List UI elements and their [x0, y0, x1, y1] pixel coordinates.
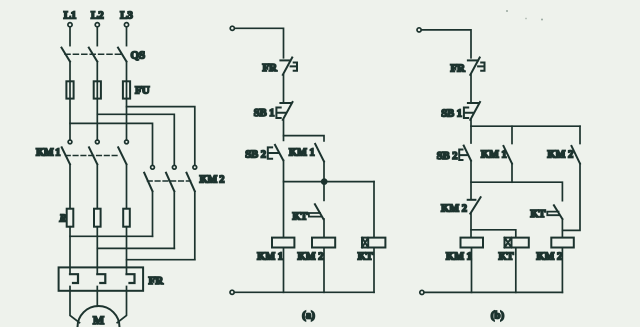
fuse FU pole 1: [66, 81, 73, 98]
wire KM1 pole 1 to R: [69, 164, 71, 208]
svg-text:L1: L1: [64, 10, 77, 22]
contactor KM1 pole 2 terminal: [95, 140, 99, 144]
contactor KM2 pole 3 terminal: [193, 165, 197, 169]
wire KM2 pole 1 down: [152, 191, 154, 236]
thermal contact FR (b) tick: [468, 59, 478, 61]
contactor KM1 pole 2 blade: [89, 147, 97, 164]
contactor KM1 pole 3 blade: [118, 147, 126, 164]
svg-text:(b): (b): [491, 310, 505, 322]
coil KT (b) with delay section: [505, 238, 529, 248]
wire KM1 pole 3 to R: [126, 164, 128, 208]
wire QS to FU pole 1: [69, 62, 71, 99]
svg-text:KM 1: KM 1: [446, 252, 472, 263]
motor M: [78, 306, 120, 327]
wire FR to SB1 (b): [470, 75, 472, 102]
thermal contact FR (a) tick: [280, 59, 290, 61]
wire tap phase2 to KM2 pole2: [97, 114, 174, 165]
thermal relay FR element 1: [70, 274, 78, 283]
svg-text:(a): (a): [302, 310, 315, 322]
svg-text:SB 2: SB 2: [437, 151, 458, 162]
wire SB1 to SB2 (a): [283, 120, 285, 141]
pushbutton SB1 (a) actuator: [276, 108, 285, 119]
svg-text:QS: QS: [131, 50, 146, 62]
speck 3: [541, 19, 543, 21]
contactor KM2 pole 1 blade: [144, 173, 152, 192]
svg-text:KM 1: KM 1: [36, 148, 60, 159]
wire a top rail: [234, 28, 283, 58]
thermal relay FR element 3: [127, 274, 135, 283]
timed contact KT (b) delay mark: [547, 212, 559, 216]
wire SB1 to node A (b): [470, 120, 472, 143]
contactor KM2 pole 3 blade: [187, 173, 195, 192]
pushbutton SB2 (b) blade: [464, 146, 471, 161]
pushbutton SB2 (a) blade: [275, 145, 283, 161]
svg-text:KT: KT: [530, 209, 545, 220]
wire QS to FU pole 3: [126, 62, 128, 99]
svg-text:SB 2: SB 2: [245, 149, 266, 160]
thermal contact FR (a) blade: [283, 58, 292, 75]
svg-text:KM 2: KM 2: [298, 251, 324, 262]
fuse FU pole 2: [94, 81, 101, 98]
wire KM2 bypass phase3: [127, 259, 195, 261]
terminal L2: [95, 23, 99, 27]
pushbutton SB1 (b) blade: [470, 102, 480, 120]
coil KM1 (b): [461, 238, 484, 248]
junction dot (a): [322, 179, 327, 184]
contactor KM1 pole 1 terminal: [68, 140, 72, 144]
contactor KM1 pole 1 blade: [62, 147, 70, 164]
wire b top rail: [421, 30, 471, 58]
wire FR to motor middle: [96, 287, 98, 307]
wire KT contact to KM2 coil (b): [561, 219, 563, 238]
resistor R phase 3: [123, 209, 130, 227]
contactor KM2 linkage dashed: [148, 180, 191, 182]
terminal b top: [417, 28, 421, 32]
wire KM2 aux down (b): [562, 164, 580, 231]
speck 2: [525, 18, 527, 20]
thermal contact FR (a) hook: [291, 63, 297, 71]
wire R phase1 to FR: [69, 227, 71, 275]
wire L3 to QS: [126, 27, 128, 46]
resistor R phase 1: [67, 209, 74, 227]
pushbutton SB1 (b) tick: [468, 102, 478, 104]
wire tap phase3 to KM2 pole3: [127, 107, 195, 166]
wire a bottom rail: [234, 291, 374, 293]
svg-text:L2: L2: [91, 10, 104, 22]
contactor KM2 pole 2 blade: [166, 173, 174, 192]
fuse FU pole 3: [123, 81, 130, 98]
svg-text:KM 1: KM 1: [481, 150, 507, 161]
wire tap to KT coil (b): [471, 230, 516, 238]
svg-text:KT: KT: [358, 251, 373, 262]
terminal a bottom: [230, 290, 234, 294]
pushbutton SB2 (b) actuator: [459, 150, 466, 161]
contactor KM2 pole 2 terminal: [172, 165, 176, 169]
wire FR to motor left: [70, 287, 80, 323]
wire tap phase1 to KM2 pole1: [70, 123, 153, 165]
svg-text:SB 1: SB 1: [441, 109, 462, 120]
wire branch to KM1 aux (a): [284, 136, 325, 141]
wire KM1 aux to node B (b): [511, 164, 513, 183]
speck 1: [506, 10, 508, 12]
pushbutton SB1 (b) actuator: [464, 108, 473, 119]
wire KT coil to rail (a): [373, 248, 375, 293]
svg-text:L3: L3: [120, 10, 133, 22]
terminal L1: [68, 23, 72, 27]
switch QS pole 2 blade: [89, 48, 98, 62]
thermal relay FR box: [59, 267, 144, 290]
wire FU pole 3 to KM1: [126, 99, 128, 140]
contact KM2 NC (b) tick: [468, 199, 476, 201]
contact KM2 aux (b) blade: [572, 146, 581, 164]
coil KM1 (a): [272, 238, 294, 248]
wire SB2 to node B (b): [470, 161, 472, 199]
wire R phase2 to FR: [96, 227, 98, 275]
wire QS to FU pole 2: [96, 62, 98, 99]
svg-text:KM 2: KM 2: [547, 150, 573, 161]
svg-text:SB 1: SB 1: [254, 108, 275, 119]
svg-text:M: M: [93, 313, 104, 327]
wire KM1 coil to rail (a): [283, 248, 285, 293]
wire FU pole 2 to KM1: [96, 99, 98, 140]
wire L2 to QS: [96, 27, 98, 46]
svg-text:KT: KT: [499, 252, 514, 263]
contact KM1 aux (a) blade: [315, 144, 324, 162]
terminal a top: [230, 26, 234, 30]
svg-text:FR: FR: [450, 63, 466, 75]
svg-text:KM 2: KM 2: [200, 175, 225, 186]
pushbutton SB1 (a) tick: [280, 102, 290, 104]
switch QS pole 1 blade: [62, 48, 71, 62]
svg-text:KM 1: KM 1: [257, 251, 283, 262]
contact KM2 NC (b) blade: [470, 197, 480, 213]
coil KT (a) with delay section: [362, 238, 385, 248]
wire node B rail (b): [471, 182, 562, 200]
coil KM2 (b): [551, 238, 574, 248]
wire node A to KM1 aux (b): [511, 126, 513, 143]
terminal L3: [124, 23, 128, 27]
pushbutton SB2 (a) actuator: [268, 147, 278, 158]
thermal contact FR (b) hook: [478, 63, 484, 71]
wire FR to SB1 (a): [283, 75, 285, 102]
wire node to KT coil (a): [373, 182, 375, 238]
wire SB2 to KM1 coil (a): [283, 160, 285, 237]
thermal contact FR (b) blade: [470, 58, 479, 75]
resistor R phase 2: [94, 209, 101, 227]
svg-text:FR: FR: [262, 62, 278, 74]
contactor KM2 pole 1 terminal: [151, 165, 155, 169]
svg-text:FU: FU: [135, 85, 150, 97]
thermal relay FR element 2: [97, 274, 105, 283]
wire b bottom rail: [424, 291, 562, 293]
wire FU pole 1 to KM1: [69, 99, 71, 140]
pushbutton SB1 (a) blade: [283, 102, 293, 120]
wire KT contact to KM2 coil (a): [323, 219, 325, 238]
wire node to KT contact (a): [323, 182, 325, 201]
wire L1 to QS: [69, 27, 71, 46]
wire node A to KM2 aux (b): [579, 126, 581, 143]
wire KM1 aux to node (a): [323, 162, 325, 182]
contactor KM1 linkage dashed: [66, 155, 121, 157]
wire KM2 NC to KM1 coil (b): [470, 214, 472, 238]
wire KM2 coil to rail (a): [323, 248, 325, 293]
svg-text:KM 2: KM 2: [441, 204, 467, 215]
wire KM2 pole 3 down: [194, 191, 196, 259]
terminal b bottom: [420, 290, 424, 294]
wire node A rail (b): [471, 125, 580, 127]
wire R phase3 to FR: [126, 227, 128, 275]
wire KM2 bypass phase2: [97, 247, 174, 249]
wire KM2 coil to rail (b): [561, 248, 563, 293]
wire FR to motor right: [117, 287, 126, 323]
wire KM1 coil to rail (b): [471, 248, 473, 293]
contactor KM1 pole 3 terminal: [125, 140, 129, 144]
svg-text:KM 1: KM 1: [289, 147, 315, 158]
svg-text:FR: FR: [149, 275, 165, 287]
timed contact KT (a) blade: [315, 204, 324, 219]
wire KT coil to rail (b): [515, 248, 517, 293]
switch QS linkage dashed: [65, 53, 122, 55]
svg-text:R: R: [58, 213, 66, 224]
svg-text:KM 2: KM 2: [536, 252, 562, 263]
contact KM1 aux (b) blade: [504, 146, 513, 164]
wire KM1 pole 2 to R: [96, 164, 98, 208]
timed contact KT (a) delay mark: [309, 213, 321, 217]
wire node line (a): [284, 181, 375, 183]
timed contact KT (b) blade: [554, 205, 563, 219]
svg-text:KT: KT: [292, 212, 307, 223]
coil KM2 (a): [312, 238, 335, 248]
wire KM2 bypass phase1: [70, 235, 153, 237]
switch QS pole 3 blade: [118, 48, 127, 62]
wire KM2 pole 2 down: [173, 191, 175, 248]
